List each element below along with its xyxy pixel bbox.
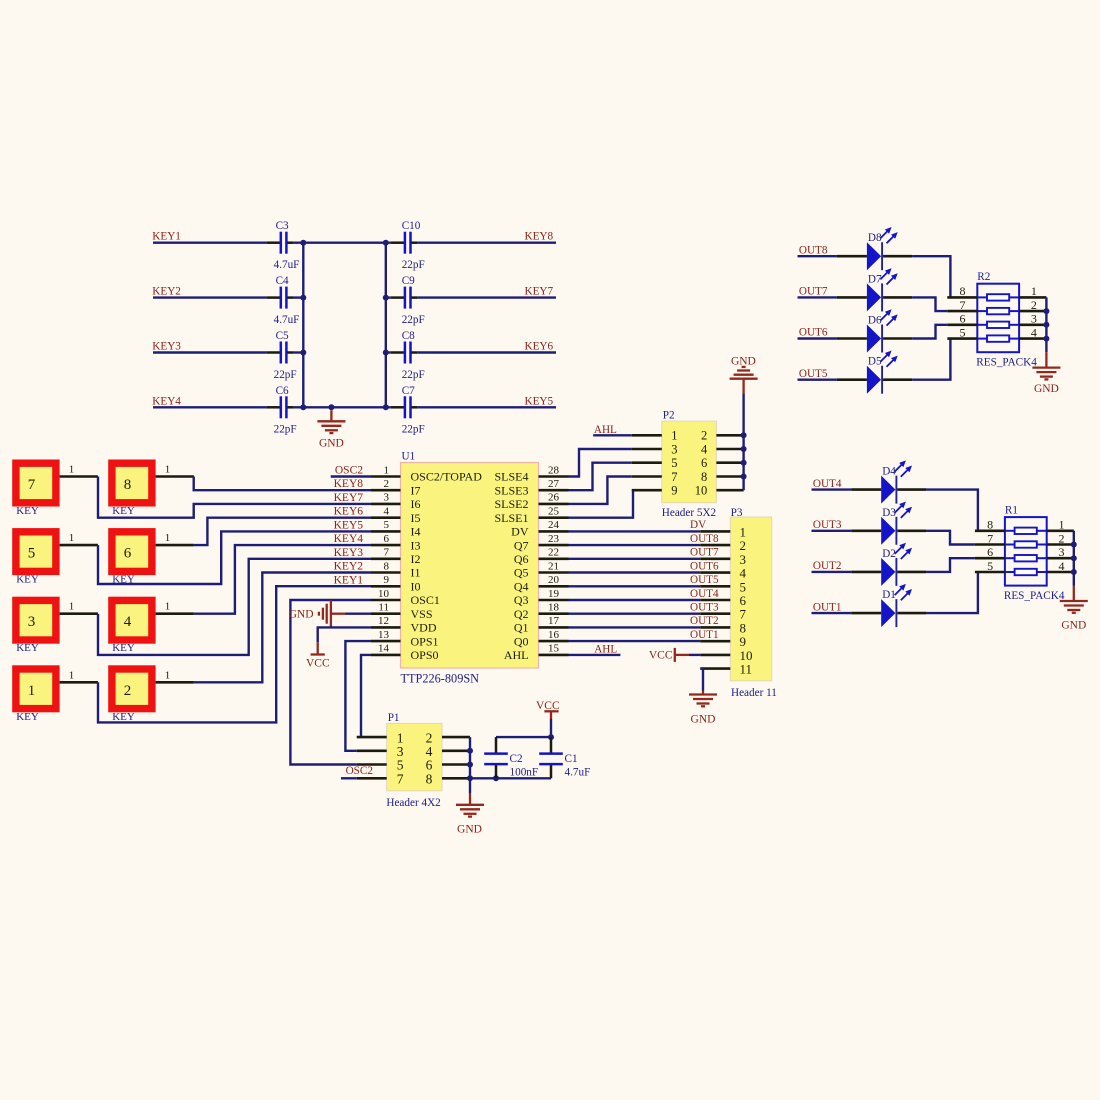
wire: [345, 613, 371, 615]
svg-text:100nF: 100nF: [510, 767, 539, 779]
svg-text:AHL: AHL: [594, 643, 617, 655]
pin number 5: [987, 559, 993, 573]
pin 3: [1047, 557, 1074, 560]
svg-text:C2: C2: [510, 753, 523, 765]
pin number 9: [384, 574, 390, 586]
pin name I6: [411, 497, 421, 511]
svg-text:C7: C7: [402, 385, 415, 397]
capacitor C2: [484, 737, 508, 778]
pin name SLSE2: [494, 497, 528, 511]
junction: [383, 240, 389, 246]
pin name OSC2/TOPAD: [411, 470, 483, 484]
pin 2: [442, 736, 470, 739]
net label OSC2: [346, 765, 373, 777]
junction: [383, 404, 389, 410]
svg-text:1: 1: [165, 601, 171, 613]
svg-text:18: 18: [548, 602, 560, 614]
wire: [294, 406, 391, 408]
pin 4: [1047, 571, 1074, 574]
designator C5: [276, 330, 289, 342]
pin 1: [156, 612, 194, 615]
designator C1: [565, 753, 578, 765]
svg-text:Q7: Q7: [514, 538, 529, 552]
svg-text:Header 4X2: Header 4X2: [386, 797, 440, 809]
wire: [384, 351, 390, 353]
svg-text:VCC: VCC: [649, 649, 673, 661]
pin 4: [442, 749, 470, 752]
key button 5: [12, 528, 59, 575]
svg-text:4: 4: [1031, 325, 1037, 339]
pin 14 OPS0: [371, 654, 401, 657]
junction: [741, 474, 747, 480]
designator U1: [402, 451, 416, 463]
pin 7: [632, 475, 662, 478]
svg-text:4: 4: [384, 506, 390, 518]
capacitor C6: [267, 396, 294, 418]
pin number 9: [740, 634, 747, 649]
pin 4 I5: [371, 516, 401, 519]
svg-text:OUT2: OUT2: [690, 615, 719, 627]
svg-text:9: 9: [671, 484, 677, 498]
svg-text:Q1: Q1: [514, 621, 529, 635]
svg-text:22pF: 22pF: [402, 424, 425, 436]
pin name I4: [411, 525, 421, 539]
pin name Q5: [514, 566, 529, 580]
pin 27 SLSE3: [539, 489, 569, 492]
pin number 7: [987, 531, 993, 545]
pin number 8: [740, 620, 747, 635]
svg-text:OUT3: OUT3: [813, 519, 842, 531]
svg-text:7: 7: [384, 547, 390, 559]
svg-text:23: 23: [548, 533, 560, 545]
svg-text:OUT6: OUT6: [690, 560, 719, 572]
svg-text:3: 3: [28, 614, 36, 630]
pin number 4: [701, 442, 708, 456]
net label OSC2: [335, 465, 363, 477]
svg-text:3: 3: [1059, 545, 1065, 559]
pin number 4: [1031, 325, 1037, 339]
svg-text:2: 2: [384, 478, 390, 490]
wire: [926, 572, 978, 613]
label KEY: [112, 505, 135, 517]
junction: [1071, 542, 1077, 548]
pin name AHL: [504, 648, 529, 662]
pin number 6: [384, 533, 390, 545]
svg-text:4.7uF: 4.7uF: [274, 314, 300, 326]
pin 1: [700, 530, 730, 533]
power VCC: [306, 642, 330, 669]
svg-text:I0: I0: [411, 580, 421, 594]
junction: [300, 404, 306, 410]
pin 2 I7: [371, 489, 401, 492]
svg-text:C10: C10: [402, 220, 421, 232]
pin 11 VSS: [371, 612, 401, 615]
net label KEY1: [152, 231, 181, 243]
pin 2: [1047, 543, 1074, 546]
svg-text:27: 27: [548, 478, 560, 490]
svg-text:26: 26: [548, 492, 560, 504]
svg-text:6: 6: [960, 312, 966, 326]
pin number 2: [701, 429, 707, 443]
pin number 4: [426, 744, 433, 759]
value 100nF: [510, 767, 539, 779]
pin 20 Q4: [539, 585, 569, 588]
key button 6: [108, 528, 155, 575]
resistor element 4: [977, 335, 1019, 341]
pin number 1: [69, 669, 75, 681]
net label AHL: [594, 424, 617, 436]
svg-text:OUT7: OUT7: [690, 547, 719, 559]
svg-text:KEY: KEY: [112, 505, 135, 517]
svg-text:10: 10: [378, 588, 390, 600]
svg-text:22pF: 22pF: [274, 424, 297, 436]
svg-text:OUT1: OUT1: [690, 629, 719, 641]
wire: [194, 477, 371, 491]
svg-text:7: 7: [987, 531, 993, 545]
svg-text:6: 6: [426, 758, 433, 773]
connector P2 body: [662, 421, 717, 503]
pin number 4: [1059, 559, 1065, 573]
pin number 7: [960, 298, 966, 312]
value 22pF: [274, 424, 297, 436]
resistor element 1: [977, 294, 1019, 300]
wire: [385, 243, 387, 408]
pin number 8: [987, 518, 993, 532]
svg-text:I1: I1: [411, 566, 421, 580]
pin 10: [700, 654, 730, 657]
resistor element 3: [977, 322, 1019, 328]
designator C6: [276, 385, 289, 397]
value 22pF: [274, 369, 297, 381]
net label OUT4: [813, 478, 842, 490]
pin number 1: [1059, 518, 1065, 532]
svg-text:C8: C8: [402, 330, 415, 342]
svg-text:D7: D7: [868, 273, 882, 285]
pin number 17: [548, 615, 560, 627]
pin number 18: [548, 602, 560, 614]
net label OUT5: [690, 574, 719, 586]
svg-text:DV: DV: [511, 525, 529, 539]
svg-text:22pF: 22pF: [274, 369, 297, 381]
wire: [569, 463, 632, 491]
capacitor C10: [391, 232, 418, 254]
pin number 6: [740, 593, 747, 608]
svg-text:1: 1: [165, 464, 171, 476]
wire: [153, 241, 267, 243]
key button 2: [108, 665, 155, 712]
resistor element 4: [1005, 569, 1047, 575]
pin name OPS1: [411, 634, 439, 648]
label KEY: [112, 711, 135, 723]
wire: [98, 477, 371, 518]
pin name I3: [411, 538, 421, 552]
button digit 1: [28, 683, 36, 699]
pin name I0: [411, 580, 421, 594]
pin number 3: [384, 492, 390, 504]
wire: [912, 325, 947, 339]
svg-text:KEY8: KEY8: [525, 231, 554, 243]
pin number 8: [384, 560, 390, 572]
svg-text:D3: D3: [882, 507, 896, 519]
net label OUT4: [690, 588, 719, 600]
svg-text:DV: DV: [690, 519, 706, 531]
net label OUT5: [799, 368, 828, 380]
key button 4: [108, 597, 155, 644]
pin 21 Q5: [539, 571, 569, 574]
pin 2: [700, 544, 730, 547]
svg-text:1: 1: [165, 669, 171, 681]
svg-text:SLSE2: SLSE2: [494, 497, 528, 511]
ground GND: [1060, 586, 1088, 632]
svg-text:7: 7: [671, 470, 677, 484]
svg-text:KEY: KEY: [16, 711, 39, 723]
svg-text:GND: GND: [731, 356, 756, 368]
pin 8: [442, 777, 470, 780]
svg-text:C6: C6: [276, 385, 289, 397]
svg-text:SLSE3: SLSE3: [494, 483, 528, 497]
junction: [300, 295, 306, 301]
wire: [98, 559, 371, 655]
wire: [700, 669, 703, 691]
svg-text:KEY5: KEY5: [525, 395, 554, 407]
net label OUT6: [690, 560, 719, 572]
pin name Q2: [514, 607, 529, 621]
net label OUT8: [799, 244, 828, 256]
svg-text:C5: C5: [276, 330, 289, 342]
svg-text:D1: D1: [882, 589, 896, 601]
capacitor C9: [391, 287, 418, 309]
svg-text:OUT1: OUT1: [813, 601, 842, 613]
svg-text:KEY1: KEY1: [152, 231, 181, 243]
svg-text:KEY2: KEY2: [152, 286, 181, 298]
svg-text:11: 11: [740, 662, 753, 677]
svg-text:KEY7: KEY7: [525, 286, 554, 298]
pin name OSC1: [411, 593, 440, 607]
pin 5: [357, 763, 387, 766]
pin number 7: [671, 470, 677, 484]
button digit 6: [124, 546, 132, 562]
svg-text:GND: GND: [691, 714, 716, 726]
svg-text:8: 8: [960, 284, 966, 298]
pin number 5: [384, 519, 390, 531]
svg-text:OUT8: OUT8: [690, 533, 719, 545]
pin 7: [357, 777, 387, 780]
pin number 6: [701, 456, 707, 470]
wire: [742, 393, 744, 490]
net label KEY7: [525, 286, 554, 298]
net label OUT1: [813, 601, 842, 613]
LED D2: [851, 543, 926, 586]
pin name I7: [411, 483, 421, 497]
ground GND: [730, 356, 758, 394]
svg-text:D2: D2: [882, 548, 896, 560]
LED D6: [837, 309, 912, 352]
pin number 26: [548, 492, 560, 504]
pin 8: [716, 475, 743, 478]
svg-text:15: 15: [548, 643, 560, 655]
comment Header 11: [731, 687, 777, 699]
pin 5: [947, 337, 977, 340]
svg-text:KEY8: KEY8: [334, 478, 364, 490]
svg-text:5: 5: [384, 519, 390, 531]
svg-text:Header 11: Header 11: [731, 687, 777, 699]
svg-text:KEY: KEY: [112, 711, 135, 723]
wire: [569, 654, 621, 656]
pin number 2: [1031, 298, 1037, 312]
pin number 1: [69, 464, 75, 476]
net label OUT8: [690, 533, 719, 545]
svg-text:4: 4: [124, 614, 132, 630]
wire: [290, 600, 371, 765]
svg-text:3: 3: [1031, 312, 1037, 326]
button digit 7: [28, 477, 36, 493]
svg-text:4.7uF: 4.7uF: [565, 767, 591, 779]
svg-text:1: 1: [69, 601, 75, 613]
wire: [1045, 297, 1047, 352]
key button 1: [12, 665, 59, 712]
svg-text:OPS1: OPS1: [411, 634, 439, 648]
svg-text:OUT5: OUT5: [690, 574, 719, 586]
capacitor C1: [539, 737, 563, 778]
resistor element 2: [1005, 541, 1047, 547]
junction: [741, 460, 747, 466]
key button 7: [12, 460, 59, 507]
pin 5: [700, 585, 730, 588]
power VCC: [649, 648, 689, 662]
pin 5: [632, 461, 662, 464]
pin number 22: [548, 547, 559, 559]
comment Header 4X2: [386, 797, 440, 809]
svg-text:2: 2: [1059, 531, 1065, 545]
svg-text:R2: R2: [977, 271, 990, 283]
button digit 4: [124, 614, 132, 630]
pin name OPS0: [411, 648, 439, 662]
pin number 8: [960, 284, 966, 298]
svg-text:1: 1: [28, 683, 36, 699]
pin number 28: [548, 464, 560, 476]
pin 7: [700, 612, 730, 615]
label KEY: [16, 711, 39, 723]
svg-text:8: 8: [426, 772, 433, 787]
svg-text:SLSE1: SLSE1: [494, 511, 528, 525]
pin 1 OSC2/TOPAD: [371, 475, 401, 478]
junction: [493, 775, 499, 781]
pin number 1: [165, 464, 171, 476]
junction: [300, 240, 306, 246]
comment Header 5X2: [662, 507, 716, 519]
label KEY: [16, 574, 39, 586]
pin name I2: [411, 552, 421, 566]
net label OUT3: [813, 519, 842, 531]
pin 17 Q1: [539, 626, 569, 629]
pin 6: [700, 599, 730, 602]
svg-text:2: 2: [1031, 298, 1037, 312]
svg-text:5: 5: [987, 559, 993, 573]
svg-text:5: 5: [671, 456, 677, 470]
pin name Q0: [514, 634, 529, 648]
pin number 1: [671, 429, 677, 443]
wire: [569, 571, 701, 573]
wire: [98, 586, 371, 722]
pin number 6: [987, 545, 993, 559]
net label OUT3: [690, 602, 719, 614]
net label KEY7: [334, 492, 364, 504]
pin number 9: [671, 484, 677, 498]
svg-text:20: 20: [548, 574, 560, 586]
wire: [798, 379, 837, 381]
svg-text:OSC2/TOPAD: OSC2/TOPAD: [411, 470, 483, 484]
svg-text:12: 12: [378, 615, 389, 627]
svg-text:8: 8: [384, 560, 390, 572]
svg-text:GND: GND: [319, 438, 344, 450]
pin 9: [632, 489, 662, 492]
pin 6: [947, 323, 977, 326]
junction: [741, 446, 747, 452]
comment RES_PACK4: [1004, 590, 1065, 602]
junction: [467, 775, 473, 781]
svg-text:KEY5: KEY5: [334, 519, 364, 531]
pin 3: [357, 749, 387, 752]
pin number 2: [1059, 531, 1065, 545]
svg-text:P2: P2: [663, 409, 675, 421]
svg-text:I5: I5: [411, 511, 421, 525]
wire: [496, 736, 551, 738]
wire: [469, 737, 471, 778]
designator C3: [276, 220, 289, 232]
svg-text:RES_PACK4: RES_PACK4: [976, 357, 1037, 369]
svg-text:C4: C4: [276, 275, 289, 287]
pin 2: [716, 434, 743, 437]
pin name SLSE1: [494, 511, 528, 525]
junction: [548, 734, 554, 740]
svg-text:1: 1: [1059, 518, 1065, 532]
designator D1: [882, 589, 896, 601]
designator R2: [977, 271, 990, 283]
pin number 1: [165, 601, 171, 613]
designator D2: [882, 548, 896, 560]
svg-text:25: 25: [548, 506, 560, 518]
LED D8: [837, 227, 912, 270]
svg-text:3: 3: [740, 552, 747, 567]
label KEY: [16, 505, 39, 517]
pin number 14: [378, 643, 390, 655]
pin name DV: [511, 525, 529, 539]
junction: [741, 432, 747, 438]
pin 28 SLSE4: [539, 475, 569, 478]
svg-text:U1: U1: [402, 451, 416, 463]
pin number 24: [548, 519, 560, 531]
pin number 1: [165, 669, 171, 681]
pin 1: [60, 681, 98, 684]
wire: [153, 406, 267, 408]
wire: [153, 351, 267, 353]
LED D4: [851, 460, 926, 503]
svg-text:OUT2: OUT2: [813, 560, 842, 572]
value 22pF: [402, 259, 425, 271]
pin number 15: [548, 643, 560, 655]
pin 8 I1: [371, 571, 401, 574]
wire: [331, 475, 371, 477]
pin 18 Q2: [539, 612, 569, 615]
wire: [569, 599, 701, 601]
wire: [418, 351, 556, 353]
net label KEY8: [334, 478, 364, 490]
pin number 1: [1031, 284, 1037, 298]
svg-text:Q3: Q3: [514, 593, 529, 607]
pin 3 I6: [371, 503, 401, 506]
pin 4: [716, 448, 743, 451]
ground GND: [456, 793, 484, 836]
